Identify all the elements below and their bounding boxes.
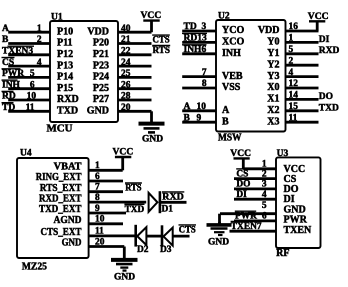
svg-text:RTS: RTS: [125, 184, 141, 194]
U1 pin 4 wire (CS net): [2, 58, 51, 68]
svg-text:U2: U2: [218, 12, 230, 22]
U2 left pin wire (TD): [182, 22, 216, 32]
svg-text:AGND: AGND: [54, 215, 82, 226]
svg-text:A: A: [222, 105, 230, 116]
U2 pin 15 wire: [286, 102, 319, 112]
U1 pin 24 wire: [118, 58, 152, 68]
svg-text:8: 8: [202, 79, 207, 89]
svg-text:RTS: RTS: [153, 46, 171, 56]
svg-text:P10: P10: [57, 26, 73, 37]
svg-text:3: 3: [202, 22, 207, 32]
svg-text:9: 9: [95, 204, 100, 214]
U2 pin 14 wire: [286, 91, 319, 101]
U4 pin 1 wire: [89, 161, 123, 171]
svg-text:B: B: [2, 35, 9, 45]
node CTS (U1 pin 21 net label): [152, 35, 170, 46]
svg-text:U3: U3: [277, 149, 289, 159]
U2 pin 5 wire: [286, 45, 319, 55]
U1 pin 1 wire (A net): [2, 24, 50, 34]
svg-text:GND: GND: [87, 106, 109, 117]
svg-text:GND: GND: [62, 238, 82, 249]
svg-text:TXD: TXD: [125, 205, 145, 215]
svg-text:D3: D3: [160, 245, 172, 255]
U1 pin 28 wire: [118, 92, 152, 102]
svg-text:26: 26: [121, 80, 131, 90]
U1 pin 11 wire (TD net): [2, 103, 51, 113]
U1 pin names left column (P10-P15,RXD,TXD): [57, 26, 79, 116]
U4 pin 10 wire: [89, 215, 123, 225]
IC U2 (MSW): [216, 12, 286, 144]
svg-text:5: 5: [30, 69, 35, 79]
U1 pin 10 wire (RD net): [2, 91, 51, 101]
node RTS (U1 pin 22 net label): [152, 46, 170, 57]
svg-text:GND: GND: [208, 237, 229, 247]
U2 left pin wire (RD13): [182, 33, 216, 43]
svg-text:RXD_EXT: RXD_EXT: [39, 193, 82, 204]
svg-text:11: 11: [289, 113, 298, 123]
svg-text:1: 1: [262, 159, 267, 169]
ground (U4 pin 20): [111, 247, 138, 283]
svg-text:6: 6: [95, 172, 100, 182]
ground (U1 pin 20): [139, 111, 165, 144]
U1 pin 21 wire: [118, 35, 152, 45]
svg-text:MCU: MCU: [47, 124, 73, 135]
svg-text:TXD_EXT: TXD_EXT: [39, 204, 82, 215]
svg-text:PWR: PWR: [2, 69, 24, 79]
U4 pin 7 wire: [89, 183, 123, 193]
svg-text:14: 14: [289, 91, 299, 101]
svg-text:P21: P21: [93, 49, 109, 60]
U1 pin 40 wire: [118, 24, 152, 34]
svg-text:10: 10: [197, 102, 207, 112]
U2 pin 16 wire: [286, 22, 319, 32]
svg-text:2: 2: [289, 56, 294, 66]
svg-text:VDD: VDD: [258, 25, 280, 36]
svg-text:Y1: Y1: [267, 48, 279, 59]
svg-text:P20: P20: [93, 38, 109, 49]
svg-text:INH: INH: [2, 80, 21, 90]
svg-text:RING_EXT: RING_EXT: [36, 172, 82, 183]
node CTS (D3 anode net label): [179, 225, 197, 236]
svg-text:25: 25: [121, 69, 131, 79]
svg-text:U4: U4: [20, 148, 32, 158]
svg-text:2: 2: [37, 35, 42, 45]
svg-text:B: B: [184, 113, 191, 123]
svg-text:Y0: Y0: [267, 37, 279, 48]
U4 pin 9 wire: [89, 204, 126, 214]
svg-text:YCO: YCO: [222, 25, 244, 36]
svg-text:21: 21: [121, 35, 131, 45]
U1 pin 3 wire (TXEN net): [2, 46, 50, 56]
svg-text:CTS: CTS: [179, 226, 196, 236]
U2 pin 1 wire: [286, 34, 319, 44]
svg-text:INH6: INH6: [184, 45, 207, 55]
svg-text:D1: D1: [162, 205, 174, 215]
power VCC (above U1 pin 40): [141, 10, 162, 32]
svg-text:Y2: Y2: [267, 59, 279, 70]
svg-text:1: 1: [289, 34, 294, 44]
svg-text:PWR: PWR: [235, 212, 257, 222]
svg-text:P15: P15: [57, 83, 73, 94]
svg-text:TD: TD: [2, 103, 15, 113]
ground (U3 pin 5): [207, 222, 232, 247]
svg-text:24: 24: [121, 58, 131, 68]
svg-text:5: 5: [262, 201, 267, 211]
U1 pin 26 wire: [118, 80, 152, 90]
svg-text:8: 8: [95, 193, 100, 203]
U3 pin 4 wire (DI): [0, 190, 276, 201]
svg-text:GND: GND: [142, 135, 163, 145]
node TXD (U4 pin 9 net label): [124, 204, 144, 215]
U4 pin 8 wire: [89, 193, 147, 203]
svg-text:A: A: [184, 102, 191, 112]
svg-text:28: 28: [121, 92, 131, 102]
node RTS (U4 pin 7 net label): [125, 183, 142, 194]
svg-text:7: 7: [95, 183, 100, 193]
svg-text:A: A: [2, 24, 9, 34]
svg-text:RXD: RXD: [162, 193, 184, 203]
svg-text:16: 16: [289, 22, 299, 32]
U3 pin 6 wire (PWR): [234, 211, 276, 222]
svg-text:DI: DI: [319, 35, 330, 45]
svg-text:11: 11: [26, 103, 35, 113]
svg-text:RF: RF: [276, 248, 289, 259]
U1 pin 6 wire (INH net): [2, 80, 51, 90]
svg-text:4: 4: [37, 58, 42, 68]
U2 left pin wire (8): [182, 79, 216, 89]
U1 pin 2 wire (B net): [2, 35, 50, 45]
power VCC (above U4 pin 1): [113, 146, 134, 170]
svg-text:P14: P14: [57, 72, 73, 83]
svg-text:CTS: CTS: [153, 36, 170, 46]
svg-text:P27: P27: [93, 94, 109, 105]
svg-text:TXEN7: TXEN7: [231, 222, 262, 232]
U3 pin 5 wire (GND net): [220, 201, 276, 214]
IC U1 (MCU): [47, 13, 119, 135]
diode D3: [160, 225, 190, 255]
U4 pin 20 wire: [89, 237, 125, 247]
svg-text:DO: DO: [319, 92, 333, 102]
svg-text:CS: CS: [236, 169, 248, 179]
svg-text:B: B: [222, 116, 229, 127]
svg-text:22: 22: [121, 47, 131, 57]
U2 pin 11 wire: [286, 113, 319, 123]
U3 pin 1 wire: [243, 159, 276, 169]
svg-text:CTS_EXT: CTS_EXT: [41, 227, 82, 238]
svg-text:10: 10: [27, 92, 37, 102]
svg-text:VBAT: VBAT: [54, 162, 82, 173]
svg-text:P12: P12: [57, 49, 73, 60]
svg-text:3: 3: [262, 180, 267, 190]
svg-text:TXEN3: TXEN3: [2, 47, 33, 57]
svg-text:MZ25: MZ25: [22, 262, 47, 273]
diode D2: [136, 225, 161, 255]
U2 pin 12 wire: [286, 79, 319, 89]
svg-text:RXD: RXD: [319, 46, 340, 56]
svg-text:X1: X1: [267, 94, 279, 105]
svg-text:1: 1: [37, 24, 42, 34]
svg-text:MSW: MSW: [218, 133, 242, 144]
U3 pin 7 wire (TXEN7): [230, 222, 277, 233]
svg-text:6: 6: [30, 80, 35, 90]
U2 pin 2 wire: [286, 56, 319, 66]
svg-text:VCC: VCC: [141, 10, 162, 21]
svg-text:GND: GND: [114, 272, 135, 282]
U3 pin 2 wire (CS): [234, 169, 276, 180]
U2 left pin wire (A): [182, 102, 216, 112]
svg-text:D2: D2: [137, 245, 149, 255]
svg-text:INH: INH: [222, 48, 241, 59]
svg-text:DO: DO: [236, 180, 250, 190]
U1 pin 20 wire: [118, 103, 152, 113]
svg-text:11: 11: [95, 227, 104, 237]
U3 pin 3 wire (DO): [0, 179, 276, 190]
svg-text:X0: X0: [267, 82, 279, 93]
svg-text:U1: U1: [51, 13, 63, 23]
svg-text:TXD: TXD: [319, 103, 339, 113]
svg-text:P24: P24: [93, 72, 109, 83]
U2 pin 4 wire: [286, 68, 319, 78]
svg-text:9: 9: [197, 113, 202, 123]
U2 left pin wire (B): [182, 113, 216, 123]
U2 pin names left column (YCO,XCO,INH,VEB,VSS,A,B): [222, 25, 244, 127]
power VCC (above U2 pin 16): [308, 11, 329, 31]
svg-text:10: 10: [95, 215, 105, 225]
svg-text:VSS: VSS: [222, 82, 241, 93]
svg-text:20: 20: [121, 103, 131, 113]
svg-text:7: 7: [202, 68, 207, 78]
U3 pin names (VCC,CS,DO,DI,GND,PWR,TXEN): [284, 164, 313, 236]
svg-text:RTS_EXT: RTS_EXT: [40, 183, 82, 194]
svg-text:VDD: VDD: [87, 26, 109, 37]
U1 pin 25 wire: [118, 69, 152, 79]
svg-text:X2: X2: [267, 105, 279, 116]
U2 left pin wire (7): [182, 68, 216, 78]
svg-text:4: 4: [289, 68, 294, 78]
U1 pin names right column (VDD,P20,P21,P23,P24,P25,P27,GND): [87, 26, 109, 116]
power VCC (above U3 pin 1): [230, 148, 251, 169]
U4 pin 11 wire: [89, 227, 135, 237]
U2 pin names right column (VDD,Y0-Y3,X0-X3): [258, 25, 280, 127]
U4 pin 6 wire: [89, 172, 123, 182]
U2 left pin wire (INH6): [182, 45, 216, 55]
IC U4 (MZ25 module): [17, 148, 89, 272]
svg-text:Y3: Y3: [267, 71, 279, 82]
svg-text:P11: P11: [57, 38, 73, 49]
svg-text:6: 6: [262, 212, 267, 222]
svg-text:TXD: TXD: [57, 106, 78, 117]
svg-text:1: 1: [95, 161, 100, 171]
svg-text:15: 15: [289, 102, 299, 112]
svg-text:4: 4: [262, 190, 267, 200]
node RXD (D1 cathode net label): [162, 192, 184, 203]
svg-text:X3: X3: [267, 116, 279, 127]
svg-text:DI: DI: [236, 190, 247, 200]
U1 pin 22 wire: [118, 47, 152, 57]
svg-text:40: 40: [121, 24, 131, 34]
U4 pin names (VBAT..GND): [36, 162, 82, 249]
svg-text:P13: P13: [57, 60, 73, 71]
svg-text:12: 12: [289, 79, 299, 89]
svg-text:P25: P25: [93, 83, 109, 94]
svg-text:RXD: RXD: [57, 94, 79, 105]
svg-text:RD: RD: [2, 92, 16, 102]
svg-text:XCO: XCO: [222, 37, 244, 48]
svg-text:VCC: VCC: [113, 146, 134, 157]
svg-text:TD: TD: [184, 22, 197, 32]
svg-text:VEB: VEB: [222, 71, 243, 82]
svg-text:20: 20: [95, 237, 105, 247]
diode D1: [149, 191, 187, 215]
svg-text:TXEN: TXEN: [284, 225, 313, 236]
wire U3 pin5 to ground (bend): [218, 214, 221, 224]
svg-text:5: 5: [289, 45, 294, 55]
svg-text:CS: CS: [2, 58, 14, 68]
svg-text:P23: P23: [93, 60, 109, 71]
IC U3 (RF module): [276, 149, 321, 259]
svg-text:2: 2: [262, 169, 267, 179]
svg-text:RD13: RD13: [184, 34, 207, 44]
U1 pin 5 wire (PWR net): [2, 69, 51, 79]
